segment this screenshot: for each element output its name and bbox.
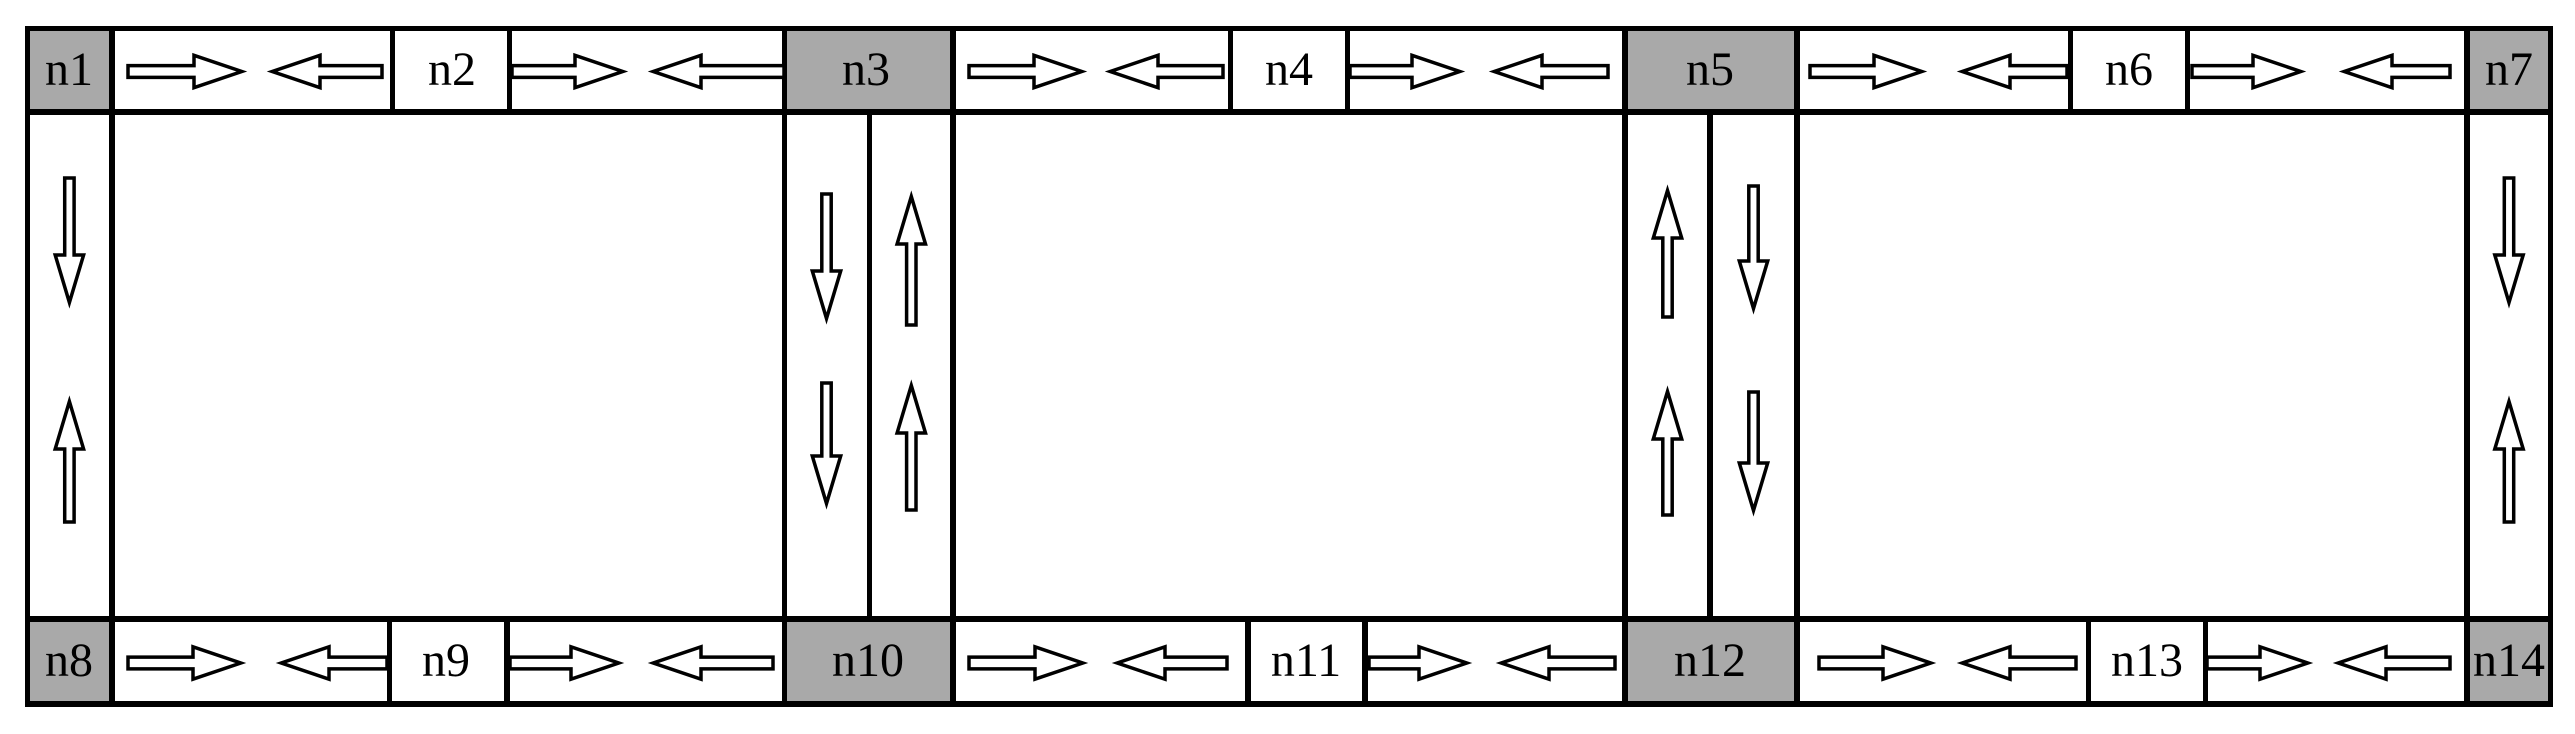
- svg-text:n4: n4: [1265, 43, 1313, 96]
- link n5-n4 arrow left: [1494, 55, 1608, 87]
- svg-text:n12: n12: [1674, 634, 1746, 687]
- bottom band top line: [25, 616, 2553, 622]
- top band bottom line: [25, 109, 2553, 115]
- link n10-n3 arrow up upper: [897, 197, 925, 326]
- top divider ch3|n4: [1228, 26, 1233, 115]
- outer border bottom: [25, 701, 2553, 707]
- node n8 cell background: [25, 616, 113, 707]
- node n14 cell background: [2464, 616, 2553, 707]
- node n10 cell background: [782, 616, 956, 707]
- outer border left: [25, 26, 30, 707]
- link n9-n8 arrow left: [281, 647, 387, 679]
- top divider ch1|n2: [390, 26, 395, 115]
- link n3-n10 arrow down upper: [812, 194, 840, 319]
- svg-text:n13: n13: [2111, 634, 2183, 687]
- link n10-n3 arrow up lower: [897, 386, 925, 511]
- link n12-n11 arrow left: [1501, 647, 1615, 679]
- svg-text:n8: n8: [45, 634, 93, 687]
- vertical line n5/n12 right edge: [1794, 26, 1800, 707]
- link n2-n1 arrow left: [272, 55, 382, 87]
- top divider n2|ch2: [507, 26, 512, 115]
- bottom divider n9|ch2: [504, 616, 510, 707]
- node n12 cell background: [1622, 616, 1800, 707]
- link n13-n14 arrow right: [2207, 647, 2308, 679]
- link n2-n3 arrow right: [512, 55, 623, 87]
- outer border right: [2548, 26, 2553, 707]
- svg-text:n9: n9: [422, 634, 470, 687]
- link n8-n1 arrow up: [55, 402, 83, 523]
- svg-text:n5: n5: [1686, 43, 1734, 96]
- link n10-n11 arrow right: [969, 647, 1083, 679]
- link n12-n5 arrow up lower: [1653, 392, 1681, 516]
- link n14-n13 arrow left: [2338, 647, 2450, 679]
- link n8-n9 arrow right: [128, 647, 241, 679]
- link n5-n6 arrow right: [1810, 55, 1922, 87]
- link n11-n12 arrow right: [1369, 647, 1467, 679]
- top divider n4|ch4: [1345, 26, 1350, 115]
- link n1-n2 arrow right: [128, 55, 242, 87]
- link n12-n5 arrow up upper: [1653, 191, 1681, 318]
- link n3-n10 arrow down lower: [812, 383, 840, 504]
- vertical line n7/n14 left edge: [2464, 26, 2470, 707]
- link n3-n2 arrow left: [653, 55, 784, 87]
- link n4-n5 arrow right: [1350, 55, 1460, 87]
- link n10-n9 arrow left: [653, 647, 773, 679]
- link n6-n5 arrow left: [1962, 55, 2067, 87]
- bottom divider ch1|n9: [387, 616, 392, 707]
- bottom divider ch5|n13: [2086, 616, 2091, 707]
- svg-text:n14: n14: [2473, 634, 2545, 687]
- link n3-n4 arrow right: [969, 55, 1082, 87]
- svg-text:n1: n1: [45, 43, 93, 96]
- corridor n5-n12 middle divider: [1707, 109, 1713, 622]
- node n1 cell background: [25, 26, 113, 115]
- svg-text:n7: n7: [2485, 43, 2533, 96]
- link n12-n13 arrow right: [1819, 647, 1931, 679]
- svg-text:n6: n6: [2105, 43, 2153, 96]
- node n5 cell background: [1622, 26, 1800, 115]
- corridor n3-n10 middle divider: [867, 109, 872, 622]
- bottom divider n11|ch4: [1362, 616, 1368, 707]
- link n14-n7 arrow up: [2495, 402, 2523, 523]
- link n5-n12 arrow down upper: [1739, 186, 1767, 309]
- vertical line n1/n8 right edge: [109, 26, 115, 707]
- link n7-n14 arrow down: [2495, 178, 2523, 303]
- vertical line n3/n10 right edge: [950, 26, 956, 707]
- top divider n6|ch6: [2185, 26, 2190, 115]
- link n13-n12 arrow left: [1962, 647, 2076, 679]
- outer border top: [25, 26, 2553, 31]
- link n4-n3 arrow left: [1110, 55, 1223, 87]
- link n1-n8 arrow down: [55, 178, 83, 303]
- link n7-n6 arrow left: [2344, 55, 2450, 87]
- svg-text:n10: n10: [832, 634, 904, 687]
- link n5-n12 arrow down lower: [1739, 392, 1767, 511]
- svg-text:n11: n11: [1271, 634, 1341, 687]
- bottom divider ch3|n11: [1245, 616, 1251, 707]
- node n3 cell background: [782, 26, 956, 115]
- link n9-n10 arrow right: [510, 647, 619, 679]
- link n11-n10 arrow left: [1117, 647, 1227, 679]
- bottom divider n13|ch6: [2203, 616, 2208, 707]
- link n6-n7 arrow right: [2192, 55, 2301, 87]
- node n7 cell background: [2464, 26, 2553, 115]
- vertical line n5/n12 left edge: [1622, 26, 1628, 707]
- vertical line n3/n10 left edge: [782, 26, 787, 707]
- svg-text:n3: n3: [842, 43, 890, 96]
- svg-text:n2: n2: [428, 43, 476, 96]
- top divider ch5|n6: [2068, 26, 2073, 115]
